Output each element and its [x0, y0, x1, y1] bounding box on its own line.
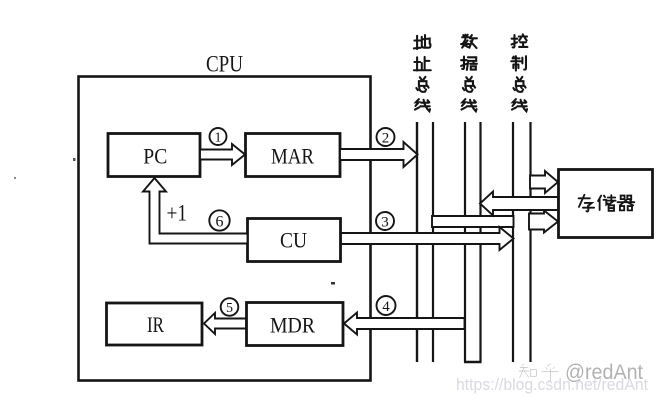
label memory char 器	[618, 196, 635, 211]
watermark char 乎	[542, 364, 558, 381]
speck between CU and MDR	[331, 282, 335, 285]
watermark 知乎 @redAnt	[519, 364, 559, 381]
CJK hand-drawn glyphs	[414, 34, 528, 111]
node 3 circle	[376, 212, 394, 230]
CPU outer box	[79, 77, 371, 381]
arrow 4: data bus to MDR	[344, 313, 465, 335]
svg-text:1: 1	[215, 131, 222, 146]
label address-bus char 地	[414, 35, 431, 49]
arrow 1: PC to MAR	[200, 144, 245, 165]
register MAR box	[246, 134, 341, 177]
bus: data bus bottom closing line	[464, 361, 482, 363]
bus: address bus left line	[416, 122, 418, 362]
svg-text:CPU: CPU	[206, 52, 243, 77]
wire: memory to data bus arrow	[480, 192, 558, 216]
register MDR box	[247, 303, 344, 346]
arrow 2: MAR to address bus	[340, 142, 418, 167]
label control-bus char 总	[513, 77, 525, 92]
bus: control bus right line	[529, 122, 531, 362]
arrow +1: feedback from CU into PC bottom	[143, 178, 248, 244]
svg-text:+1: +1	[167, 201, 188, 226]
label control-bus char 制	[511, 56, 526, 70]
label address-bus char 线	[415, 99, 430, 111]
memory box	[559, 170, 653, 238]
speck near PC lower-left	[14, 177, 16, 179]
wire: control bus to memory arrow (top)	[530, 171, 558, 193]
label address-bus char 址	[414, 57, 431, 71]
node 5 circle	[221, 298, 239, 316]
arrow 3: CU to control bus	[341, 227, 514, 250]
speck left of CPU box	[73, 158, 76, 161]
bus: data bus left line	[464, 122, 466, 362]
label address-bus char 总	[416, 77, 428, 92]
label memory char 存	[579, 195, 595, 212]
label control-bus char 控	[512, 34, 528, 47]
label data-bus char 总	[463, 77, 475, 92]
label data-bus char 据	[461, 57, 477, 70]
bus: address bus right line	[432, 122, 434, 362]
label data-bus char 线	[461, 99, 476, 111]
svg-text:5: 5	[226, 301, 233, 316]
watermark char 知	[519, 364, 537, 378]
svg-text:3: 3	[381, 215, 389, 231]
bus: data bus right line	[479, 122, 481, 362]
svg-text:https://blog.csdn.net/redAnt: https://blog.csdn.net/redAnt	[456, 376, 648, 394]
svg-text:IR: IR	[147, 312, 164, 337]
register IR box	[107, 303, 203, 345]
svg-text:2: 2	[382, 131, 390, 147]
label data-bus char 数	[461, 35, 477, 48]
wire: address bus channel toward memory	[432, 216, 514, 227]
wire: control bus to memory arrow (bottom)	[529, 211, 558, 233]
node 6 circle	[209, 210, 229, 230]
svg-text:MAR: MAR	[271, 144, 314, 169]
node 4 circle	[377, 296, 396, 315]
label memory char 储	[598, 195, 616, 211]
svg-text:6: 6	[216, 214, 224, 231]
label control-bus char 线	[512, 99, 527, 111]
svg-text:CU: CU	[280, 228, 307, 253]
node 1 circle	[210, 128, 227, 145]
arrow 5: MDR to IR	[204, 313, 246, 334]
register PC box	[108, 134, 200, 177]
node 2 circle	[377, 128, 395, 146]
control unit CU box	[248, 219, 341, 262]
svg-text:PC: PC	[143, 144, 167, 169]
bus: control bus left line	[512, 122, 514, 362]
svg-text:4: 4	[382, 299, 390, 315]
svg-text:MDR: MDR	[270, 313, 315, 338]
